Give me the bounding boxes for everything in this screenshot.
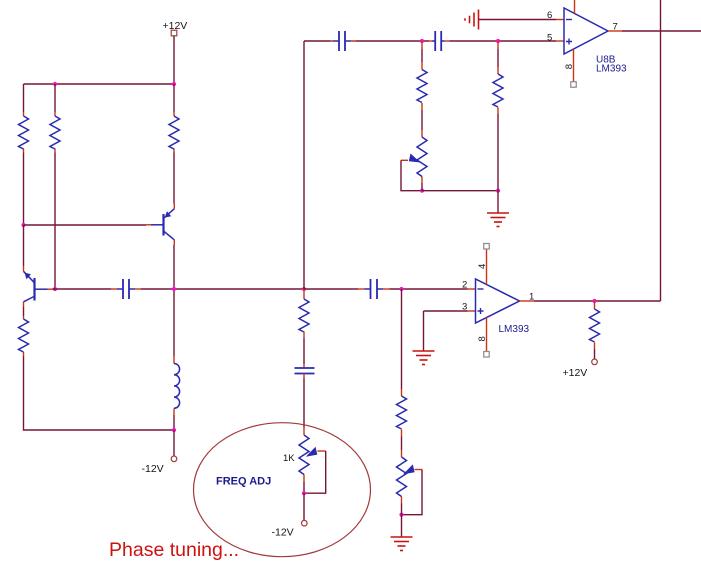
resistor R3 (collector load) — [169, 112, 179, 153]
capacitor C5 (vertical) — [295, 364, 315, 378]
svg-text:6: 6 — [547, 10, 552, 21]
node junction (422,190.7) — [420, 189, 424, 193]
node junction (594.5,301) — [592, 299, 596, 303]
LOWER-MIDDLE BRANCH x=401.5 — [391, 289, 423, 551]
FREQ ADJ BRANCH — [109, 289, 371, 561]
minus mark — [478, 288, 484, 290]
capacitor C4 (top rail right) — [429, 31, 450, 51]
transistor Q1 (PNP) — [146, 204, 174, 246]
power port -12V (left) — [142, 456, 177, 475]
wire R5 to pot P1 — [421, 110, 423, 130]
pin 4 line (top, cropped) — [574, 0, 576, 14]
svg-text:-12V: -12V — [272, 527, 294, 539]
pin 8 line — [486, 318, 488, 352]
resistor R2 (second column) — [50, 112, 60, 153]
wire R7 to C5 — [303, 338, 305, 364]
svg-text:1K: 1K — [283, 453, 295, 464]
wire Q1 collector down — [173, 245, 175, 289]
wire right vertical x=660.5 — [660, 0, 662, 301]
wire junction to -12V — [303, 493, 305, 520]
potentiometer P3 (x=401.5) — [397, 450, 423, 515]
pin 8 line — [573, 49, 575, 82]
node junction (174,289) — [172, 287, 176, 291]
power port +12V — [163, 20, 188, 36]
wire bus segment 2 — [141, 288, 304, 290]
resistor R6 (x=498) — [493, 41, 503, 114]
svg-text:3: 3 — [462, 302, 467, 313]
resistor R4 (bottom left) — [19, 316, 29, 356]
wire R8 to pot P3 — [401, 437, 403, 451]
wire to ground stem — [497, 191, 499, 213]
node junction (174,84) — [172, 82, 176, 86]
wire bus junction down — [401, 289, 403, 389]
wire second column upper — [54, 84, 56, 112]
output pin 1 stub — [520, 300, 535, 302]
wire bus segment 1 — [53, 288, 112, 290]
node junction (55,84) — [53, 82, 57, 86]
minus mark — [566, 19, 572, 21]
ground (bottom middle) — [391, 537, 413, 551]
pin 4 line — [486, 249, 488, 285]
wire top rail — [304, 40, 331, 42]
svg-text:8: 8 — [477, 336, 488, 341]
wire collector node down to inductor — [173, 289, 175, 356]
MAIN BUS — [53, 279, 468, 299]
wire bus segment 4 to pin2 — [390, 288, 468, 290]
node junction (23.5,225) — [21, 223, 25, 227]
wire output 1 — [534, 300, 661, 302]
potentiometer P2 1K (FREQ ADJ) — [299, 428, 326, 494]
power port -12V (freq adj) — [272, 520, 308, 538]
wire Q1 base line y=225 — [24, 224, 147, 226]
wire C5 to pot — [303, 378, 305, 428]
svg-text:1: 1 — [529, 292, 534, 303]
svg-text:4: 4 — [477, 264, 488, 269]
svg-text:LM393: LM393 — [596, 64, 627, 75]
power port +12V (right) — [563, 359, 598, 379]
svg-text:7: 7 — [613, 22, 618, 33]
wire output 7 to edge — [622, 30, 701, 32]
node junction (174,430) — [172, 428, 176, 432]
plus mark — [566, 39, 572, 45]
resistor R7 (x=304 below bus) — [299, 289, 309, 338]
wire bus segment 3 — [304, 288, 358, 290]
pin 2 stub — [468, 288, 476, 290]
node junction (304,289) — [302, 287, 306, 291]
wire ground rail y=190.7 — [422, 183, 498, 191]
potentiometer P1 (x=422) — [401, 130, 427, 191]
wire pin3 — [424, 310, 468, 312]
capacitor C2 (series, bus) — [358, 279, 390, 299]
transistor Q2 — [24, 266, 53, 307]
pin 4 terminal square — [484, 244, 490, 250]
OP-AMP U8B TOP — [465, 0, 701, 301]
pin 8 terminal square — [484, 352, 490, 358]
resistor R1 (left column) — [19, 112, 29, 153]
wire R6 down — [497, 114, 499, 191]
OP-AMP LOWER — [413, 244, 661, 380]
wire top rail mid — [356, 40, 429, 42]
node junction (304,493.2) — [302, 491, 306, 495]
svg-text:2: 2 — [462, 280, 467, 291]
MIDDLE NETWORK — [304, 31, 556, 289]
plus mark — [478, 308, 484, 314]
wire R3 to Q1 emitter — [173, 153, 175, 204]
op-amp U2 triangle — [476, 279, 520, 323]
annotation ellipse — [194, 423, 371, 557]
wire R9 to +12V — [594, 349, 596, 359]
inductor L1 — [174, 356, 180, 415]
node junction (498,190.7) — [496, 189, 500, 193]
wire long vertical riser x=304 — [303, 41, 305, 289]
wire third column upper — [173, 84, 175, 112]
ground (pin 3) — [413, 351, 435, 365]
node junction (498,41) — [496, 39, 500, 43]
wire pin3 ground stem — [423, 311, 425, 351]
op-amp U1 triangle — [564, 8, 608, 54]
svg-text:LM393: LM393 — [499, 324, 530, 335]
svg-text:FREQ ADJ: FREQ ADJ — [216, 476, 271, 488]
wire bottom left rail — [24, 356, 175, 430]
svg-text:Phase tuning...: Phase tuning... — [109, 539, 239, 561]
wire pot to ground — [401, 504, 403, 538]
wire second column down to base junction — [54, 153, 56, 290]
node junction (401.5,289) — [399, 287, 403, 291]
capacitor C1 (series, bus) — [111, 279, 141, 299]
svg-text:8: 8 — [564, 64, 575, 69]
wire pot to junction — [303, 482, 305, 494]
svg-text:+12V: +12V — [563, 367, 588, 379]
resistor R9 (pull-up) — [590, 301, 600, 349]
pin 3 stub — [468, 310, 476, 312]
ground (sideways, pin 6) — [465, 10, 479, 30]
wire top rail to pin5 — [450, 40, 557, 42]
node junction (55,289) — [53, 287, 57, 291]
wire +12V down to top rail — [173, 36, 175, 84]
wire left column to junction — [23, 153, 25, 226]
LEFT BLOCK — [19, 20, 188, 475]
wire pin5 stub — [556, 40, 564, 42]
wire pin6 — [479, 19, 557, 21]
node junction (422,41) — [420, 39, 424, 43]
wire top-left rail — [24, 83, 175, 85]
svg-text:-12V: -12V — [142, 463, 164, 475]
wire inductor to bottom rail — [173, 415, 175, 430]
wire Q2 collector down — [23, 307, 25, 316]
ground (below R6) — [487, 213, 509, 227]
pin 6 stub — [556, 19, 564, 21]
svg-text:5: 5 — [547, 33, 552, 44]
wire left column junction down to Q2 emitter — [23, 225, 25, 266]
wire left column upper — [23, 84, 25, 112]
node junction (401.5,514.7) — [399, 513, 403, 517]
wire to -12V terminal — [173, 430, 175, 456]
pin 8 terminal square — [571, 82, 577, 88]
capacitor C3 (top rail left) — [331, 31, 357, 51]
resistor R8 (x=401.5) — [397, 389, 407, 437]
output pin 7 stub — [608, 30, 622, 32]
resistor R5 (x=422 upper) — [417, 41, 427, 110]
